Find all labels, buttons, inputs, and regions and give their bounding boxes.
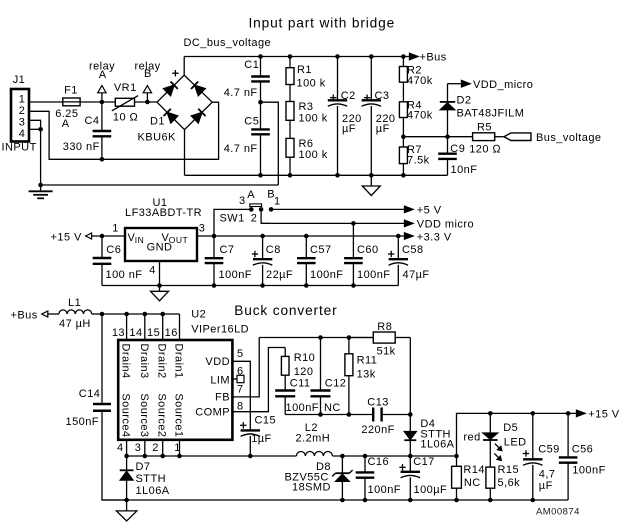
svg-text:7.5k: 7.5k bbox=[407, 154, 430, 166]
capacitor C56 100nF bbox=[559, 413, 606, 500]
svg-text:C7: C7 bbox=[220, 244, 235, 256]
capacitor C2 220uF bbox=[328, 57, 362, 176]
svg-text:FB: FB bbox=[215, 392, 230, 404]
capacitor C12 NC bbox=[311, 338, 347, 417]
svg-text:R11: R11 bbox=[357, 355, 378, 367]
svg-text:C59: C59 bbox=[538, 444, 560, 456]
wire bridge top to DC bus rail bbox=[183, 57, 185, 76]
net arrow +15V (left) / wire to U1 pin1 bbox=[51, 231, 126, 243]
svg-text:4.7 nF: 4.7 nF bbox=[224, 143, 258, 155]
svg-text:C11: C11 bbox=[290, 377, 311, 389]
svg-text:µF: µF bbox=[539, 480, 553, 492]
relay A tap bbox=[89, 61, 115, 103]
resistor R3 100k bbox=[286, 101, 328, 138]
wire DC bus rail (top) bbox=[184, 54, 409, 59]
wire U2 FB pin7 up bbox=[232, 338, 259, 397]
wire bridge right to bottom bus bbox=[102, 102, 219, 159]
wire J1 pin1 to F1 bbox=[29, 101, 63, 103]
resistor R6 100k bbox=[286, 138, 328, 175]
title: Buck converter bbox=[234, 303, 337, 318]
resistor R10 120 bbox=[281, 348, 315, 391]
svg-text:Drain3: Drain3 bbox=[138, 344, 150, 379]
wire U2 VDD pin5 down to C15 bbox=[232, 361, 250, 430]
wire U1 section ground rail bbox=[102, 283, 398, 288]
svg-text:47 µH: 47 µH bbox=[59, 318, 91, 330]
svg-text:330 nF: 330 nF bbox=[63, 141, 100, 153]
wire drain rail bbox=[100, 312, 180, 317]
wire earth line to C1-C5 midpoint bbox=[41, 184, 279, 186]
capacitor C4 330nF bbox=[63, 102, 111, 162]
svg-text:Input part with bridge: Input part with bridge bbox=[249, 16, 396, 31]
svg-text:R15: R15 bbox=[498, 464, 520, 476]
wire U2 COMP pin8 to R10 bbox=[232, 348, 285, 412]
svg-text:A: A bbox=[99, 69, 107, 81]
svg-text:13k: 13k bbox=[357, 368, 376, 380]
port tag Bus_voltage bbox=[504, 132, 602, 144]
zener D8 BZV55C 18SMD bbox=[285, 456, 353, 502]
capacitor C13 220nF bbox=[361, 397, 410, 437]
svg-text:BAT48JFILM: BAT48JFILM bbox=[457, 107, 525, 119]
svg-text:10nF: 10nF bbox=[451, 164, 478, 176]
svg-text:B: B bbox=[144, 68, 152, 80]
wire C1-C5 midpoint to earth line bbox=[261, 102, 279, 185]
svg-text:+Bus: +Bus bbox=[420, 52, 447, 64]
svg-text:R5: R5 bbox=[477, 122, 492, 134]
svg-text:14: 14 bbox=[129, 327, 142, 339]
switch SW1 bbox=[214, 189, 281, 236]
svg-text:LIM: LIM bbox=[210, 374, 230, 386]
capacitor C7 100nF bbox=[205, 236, 252, 286]
svg-text:150nF: 150nF bbox=[66, 416, 99, 428]
capacitor C6 100nF bbox=[93, 236, 143, 286]
svg-text:1L06A: 1L06A bbox=[420, 439, 454, 451]
wire source rail bbox=[124, 454, 296, 459]
svg-text:100 k: 100 k bbox=[297, 78, 326, 90]
svg-text:8: 8 bbox=[237, 400, 244, 412]
svg-text:Source1: Source1 bbox=[173, 393, 185, 437]
svg-text:GND: GND bbox=[147, 242, 173, 254]
svg-text:7: 7 bbox=[237, 384, 244, 396]
svg-text:Buck converter: Buck converter bbox=[234, 303, 337, 318]
capacitor C11 100nF bbox=[275, 377, 319, 414]
capacitor C5 4.7nF bbox=[224, 102, 270, 175]
svg-text:Source3: Source3 bbox=[138, 393, 150, 437]
svg-text:R14: R14 bbox=[463, 464, 485, 476]
svg-text:3: 3 bbox=[19, 116, 26, 128]
capacitor C1 4.7nF bbox=[224, 57, 270, 105]
svg-text:10 Ω: 10 Ω bbox=[113, 112, 138, 124]
svg-text:A: A bbox=[247, 189, 255, 201]
capacitor C16 100nF bbox=[356, 456, 401, 502]
diode D7 STTH 1L06A (freewheel) bbox=[120, 456, 170, 502]
svg-text:C12: C12 bbox=[325, 377, 347, 389]
svg-text:COMP: COMP bbox=[195, 407, 230, 419]
svg-text:5: 5 bbox=[237, 348, 244, 360]
U2 LIM pin6 NC square bbox=[232, 375, 244, 382]
svg-text:C17: C17 bbox=[413, 456, 435, 468]
svg-text:DC_bus_voltage: DC_bus_voltage bbox=[184, 37, 272, 49]
wire FB line bbox=[259, 335, 373, 340]
svg-text:4,7: 4,7 bbox=[539, 469, 556, 481]
svg-text:VIPer16LD: VIPer16LD bbox=[191, 324, 249, 336]
wire J1 pin4 / junction bbox=[29, 127, 43, 132]
svg-text:D2: D2 bbox=[457, 94, 472, 106]
svg-text:C8: C8 bbox=[266, 244, 281, 256]
svg-text:C6: C6 bbox=[106, 244, 121, 256]
svg-text:D1: D1 bbox=[150, 116, 165, 128]
svg-text:LF33ABDT-TR: LF33ABDT-TR bbox=[125, 207, 202, 219]
wire R8 down to C13/D4 node bbox=[408, 338, 413, 417]
capacitor C3 220uF bbox=[362, 57, 396, 176]
wire R4-R7 node to D2/C9/R5 node bbox=[403, 134, 449, 139]
title: Input part with bridge bbox=[249, 16, 396, 31]
regulator U1 LF33ABDT-TR bbox=[112, 197, 205, 277]
svg-text:1: 1 bbox=[112, 223, 119, 235]
svg-text:13: 13 bbox=[112, 327, 125, 339]
wire output rail after L2 bbox=[333, 454, 459, 459]
svg-text:NC: NC bbox=[324, 402, 341, 414]
resistor R7 7.5k bbox=[399, 137, 429, 176]
svg-text:100nF: 100nF bbox=[368, 484, 401, 496]
wire +15V output line bbox=[457, 411, 579, 456]
svg-text:R1: R1 bbox=[297, 64, 312, 76]
svg-text:L1: L1 bbox=[68, 297, 81, 309]
wire J1 ground drop / junction bbox=[38, 129, 43, 187]
wire U1 GND pin4 down bbox=[159, 261, 161, 286]
net arrow +Bus (top) bbox=[410, 52, 447, 64]
svg-text:1: 1 bbox=[19, 93, 26, 105]
net label DC_bus_voltage bbox=[184, 37, 272, 49]
svg-text:Bus_voltage: Bus_voltage bbox=[536, 132, 602, 144]
svg-text:KBU6K: KBU6K bbox=[138, 131, 177, 143]
capacitor C9 10nF bbox=[438, 137, 477, 176]
capacitor C57 100nF bbox=[297, 236, 343, 286]
capacitor C8 22uF bbox=[252, 236, 293, 286]
svg-text:4: 4 bbox=[19, 128, 26, 140]
svg-text:2: 2 bbox=[152, 442, 159, 454]
svg-text:C15: C15 bbox=[255, 414, 277, 426]
svg-text:C57: C57 bbox=[310, 244, 332, 256]
wires U2 source pin stubs bbox=[127, 440, 180, 456]
wire U1 VOUT +3.3V rail bbox=[197, 234, 410, 239]
svg-text:R8: R8 bbox=[377, 321, 392, 333]
svg-text:4.7 nF: 4.7 nF bbox=[224, 87, 258, 99]
capacitor C17 100uF bbox=[399, 456, 447, 502]
fuse F1 bbox=[55, 85, 80, 131]
svg-text:3: 3 bbox=[199, 223, 206, 235]
wire lower rail (top section) bbox=[185, 173, 448, 178]
diode D2 BAT48JFILM bbox=[440, 84, 525, 137]
svg-text:Drain2: Drain2 bbox=[156, 344, 168, 379]
svg-text:15: 15 bbox=[147, 327, 160, 339]
svg-text:1µF: 1µF bbox=[251, 433, 272, 445]
svg-text:µF: µF bbox=[342, 123, 356, 135]
svg-text:µF: µF bbox=[376, 123, 390, 135]
capacitor C58 47uF bbox=[388, 236, 430, 286]
svg-text:100nF: 100nF bbox=[357, 269, 390, 281]
svg-text:2.2mH: 2.2mH bbox=[296, 433, 331, 445]
svg-text:100µF: 100µF bbox=[414, 484, 448, 496]
svg-text:5,6k: 5,6k bbox=[498, 477, 521, 489]
svg-text:+3.3 V: +3.3 V bbox=[417, 231, 452, 243]
svg-text:C2: C2 bbox=[341, 90, 356, 102]
svg-text:C1: C1 bbox=[244, 59, 259, 71]
bridge rectifier D1 KBU6K bbox=[138, 70, 213, 143]
svg-text:C3: C3 bbox=[375, 90, 390, 102]
svg-text:R10: R10 bbox=[294, 352, 316, 364]
svg-text:AM00874: AM00874 bbox=[536, 507, 580, 518]
svg-text:120 Ω: 120 Ω bbox=[469, 143, 501, 155]
svg-text:VDD_micro: VDD_micro bbox=[473, 79, 533, 91]
svg-text:R3: R3 bbox=[299, 101, 314, 113]
resistor R5 120ohm bbox=[448, 122, 505, 156]
resistor R1 100k bbox=[286, 57, 326, 102]
wire bridge bottom to lower rail bbox=[184, 130, 186, 176]
svg-text:16: 16 bbox=[165, 327, 178, 339]
wire/net arrow VDD micro bbox=[261, 218, 474, 230]
svg-text:INPUT: INPUT bbox=[2, 142, 37, 154]
controller U2 VIPer16LD bbox=[112, 309, 249, 454]
svg-text:F1: F1 bbox=[64, 85, 78, 97]
svg-text:3: 3 bbox=[239, 195, 246, 207]
svg-text:100 k: 100 k bbox=[299, 112, 328, 124]
net arrow +Bus (buck input) bbox=[11, 310, 59, 322]
svg-text:Drain4: Drain4 bbox=[120, 344, 132, 379]
svg-text:U2: U2 bbox=[191, 309, 206, 321]
svg-text:C16: C16 bbox=[368, 456, 390, 468]
svg-text:+15 V: +15 V bbox=[51, 231, 83, 243]
wire VR1 to bridge / node relay B bbox=[135, 100, 158, 105]
svg-text:100nF: 100nF bbox=[310, 269, 343, 281]
connector J1 bbox=[2, 74, 37, 154]
svg-text:C9: C9 bbox=[450, 143, 465, 155]
wire compensation bottom line bbox=[285, 414, 373, 416]
svg-text:470k: 470k bbox=[407, 75, 433, 87]
svg-text:C58: C58 bbox=[402, 244, 424, 256]
svg-text:+Bus: +Bus bbox=[11, 310, 38, 322]
svg-text:100nF: 100nF bbox=[572, 465, 605, 477]
inductor L2 2.2mH bbox=[296, 422, 333, 456]
svg-text:VDD micro: VDD micro bbox=[417, 218, 474, 230]
svg-text:47µF: 47µF bbox=[403, 269, 430, 281]
capacitor C14 150nF bbox=[66, 314, 127, 500]
svg-text:120: 120 bbox=[294, 366, 314, 378]
wire/net arrow +5V bbox=[271, 205, 442, 217]
capacitor C60 100nF (on VDD micro) bbox=[344, 223, 390, 285]
capacitor C15 1uF bbox=[240, 414, 276, 456]
resistor R15 5.6k bbox=[486, 464, 520, 502]
net arrow +15V (output) bbox=[577, 409, 620, 421]
ground (buck) bbox=[116, 500, 136, 521]
svg-text:Drain1: Drain1 bbox=[173, 344, 185, 379]
svg-text:Source4: Source4 bbox=[120, 393, 132, 437]
net arrow VDD_micro (top) bbox=[448, 79, 534, 91]
figure number AM00874 bbox=[536, 507, 580, 518]
resistor R2 470k bbox=[399, 57, 432, 102]
svg-text:D5: D5 bbox=[503, 422, 518, 434]
svg-text:STTH: STTH bbox=[136, 473, 167, 485]
wire J1 pin2 to bottom bus bbox=[29, 111, 102, 159]
svg-text:IN: IN bbox=[135, 235, 144, 245]
resistor R11 13k bbox=[345, 338, 377, 417]
resistor R8 51k bbox=[349, 321, 410, 358]
svg-text:2: 2 bbox=[251, 213, 258, 225]
svg-text:470k: 470k bbox=[407, 109, 433, 121]
svg-text:22µF: 22µF bbox=[266, 269, 293, 281]
svg-text:100 k: 100 k bbox=[299, 149, 328, 161]
svg-text:+5 V: +5 V bbox=[417, 205, 442, 217]
svg-text:R6: R6 bbox=[299, 138, 314, 150]
svg-text:A: A bbox=[62, 118, 70, 130]
svg-text:100nF: 100nF bbox=[219, 269, 252, 281]
ground (top section) bbox=[362, 175, 380, 195]
svg-text:4: 4 bbox=[117, 442, 124, 454]
resistor R4 470k bbox=[399, 99, 432, 139]
svg-text:1: 1 bbox=[274, 196, 281, 208]
svg-text:NC: NC bbox=[464, 477, 481, 489]
svg-text:red: red bbox=[463, 432, 480, 444]
svg-text:2: 2 bbox=[19, 105, 26, 117]
svg-text:100nF: 100nF bbox=[286, 402, 319, 414]
varistor VR1 bbox=[112, 82, 138, 124]
svg-text:3: 3 bbox=[135, 442, 142, 454]
wires U2 drain pin stubs bbox=[127, 314, 180, 340]
svg-text:SW1: SW1 bbox=[220, 213, 245, 225]
net arrow +3.3V bbox=[405, 231, 452, 243]
inductor L1 47uH bbox=[59, 297, 102, 330]
diode D4 STTH 1L06A bbox=[404, 415, 454, 457]
ground (U1 section) bbox=[151, 286, 169, 301]
svg-text:VR1: VR1 bbox=[114, 82, 137, 94]
svg-text:18SMD: 18SMD bbox=[292, 482, 331, 494]
earth ground J1 bbox=[29, 185, 53, 198]
relay B tap bbox=[135, 61, 161, 103]
svg-text:51k: 51k bbox=[377, 346, 396, 358]
svg-text:D7: D7 bbox=[136, 461, 151, 473]
svg-text:Source2: Source2 bbox=[156, 393, 168, 437]
svg-text:VDD: VDD bbox=[205, 356, 230, 368]
wire bottom return line bbox=[102, 499, 568, 501]
capacitor C59 4.7uF bbox=[523, 413, 560, 502]
svg-text:J1: J1 bbox=[13, 74, 26, 86]
svg-text:100 nF: 100 nF bbox=[106, 269, 143, 281]
svg-text:C56: C56 bbox=[572, 444, 594, 456]
resistor R14 NC bbox=[452, 456, 485, 502]
svg-text:+15 V: +15 V bbox=[588, 409, 620, 421]
wire J1 pin3 down bbox=[29, 120, 41, 129]
svg-text:C4: C4 bbox=[85, 115, 100, 127]
svg-text:LED: LED bbox=[504, 437, 527, 449]
wire F1 to VR1 / node relay A bbox=[80, 100, 115, 105]
svg-text:4: 4 bbox=[149, 265, 156, 277]
svg-text:1L06A: 1L06A bbox=[136, 485, 170, 497]
svg-text:C13: C13 bbox=[367, 397, 389, 409]
svg-text:220nF: 220nF bbox=[361, 424, 394, 436]
svg-text:C60: C60 bbox=[357, 244, 379, 256]
svg-text:C5: C5 bbox=[244, 116, 259, 128]
LED D5 red bbox=[463, 413, 526, 467]
svg-text:C14: C14 bbox=[79, 388, 101, 400]
